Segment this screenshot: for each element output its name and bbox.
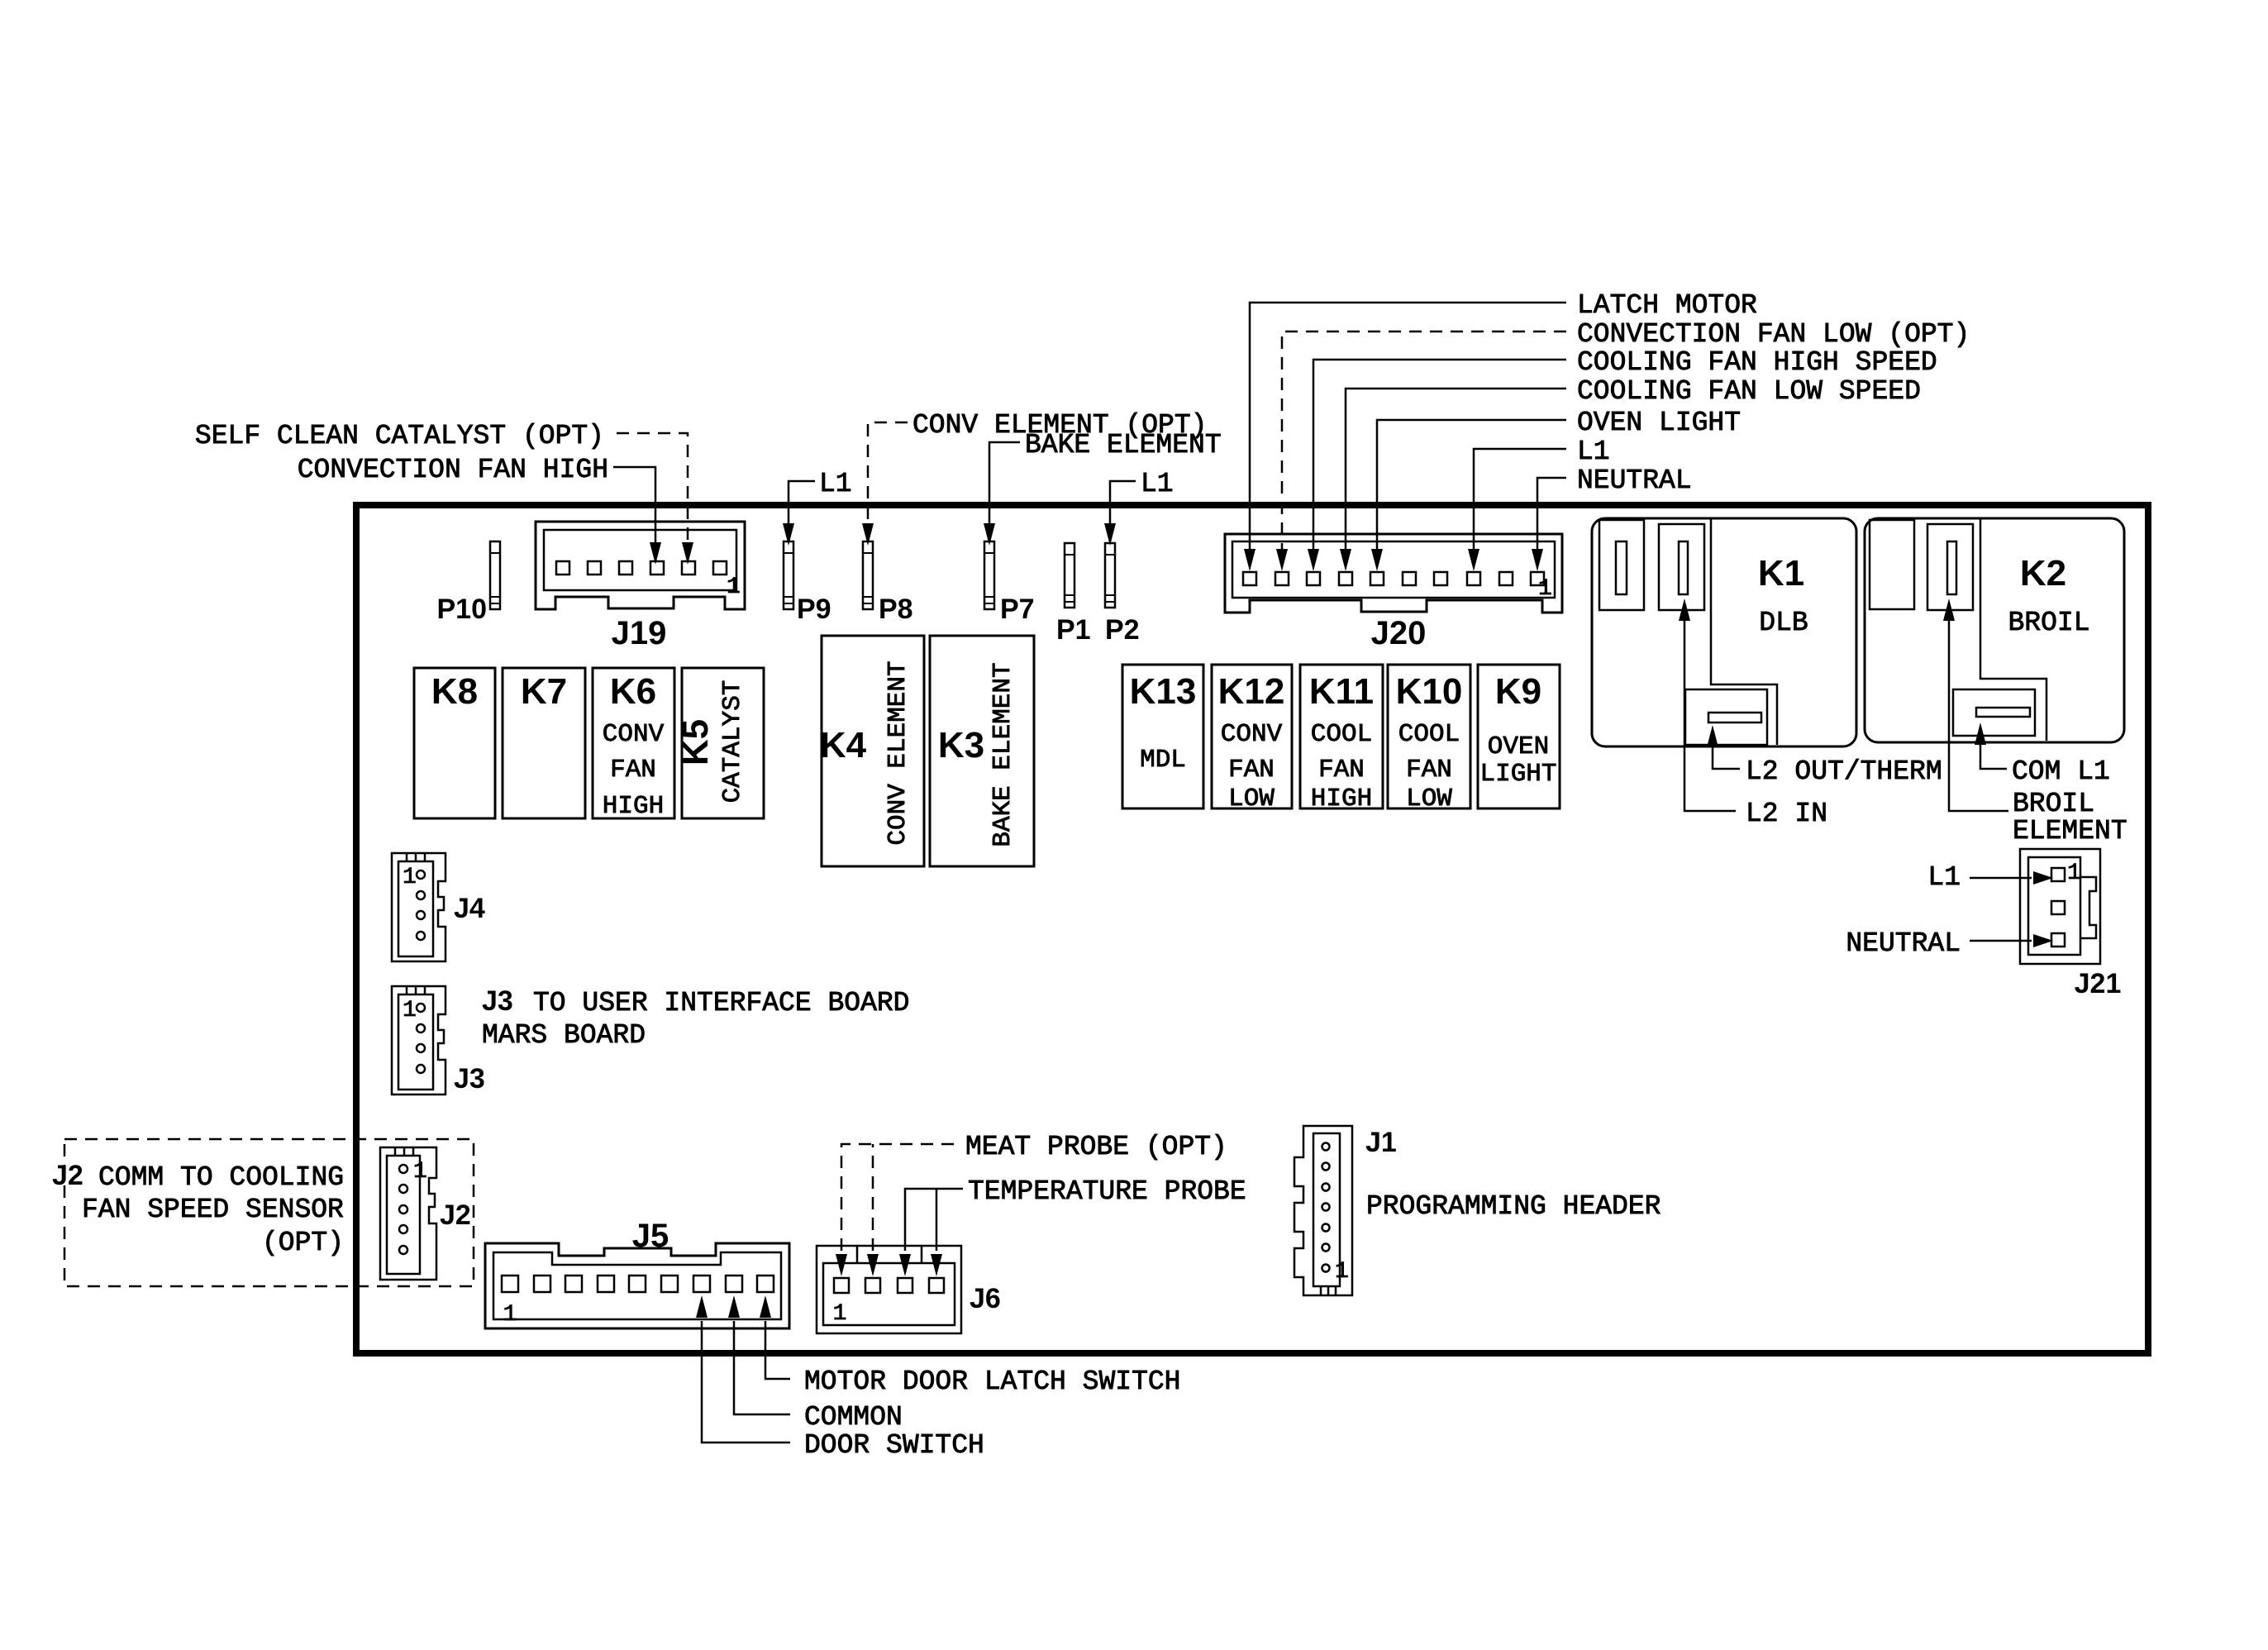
J2 pin 2 [399,1185,407,1193]
svg-text:P1: P1 [1056,614,1091,646]
svg-text:COOLING FAN HIGH SPEED: COOLING FAN HIGH SPEED [1577,347,1937,378]
relay K12 CONV FAN LOW [1212,665,1292,813]
connector J20 [1225,534,1562,613]
J1 pin 7 [1322,1143,1330,1151]
svg-text:K11: K11 [1309,671,1374,712]
svg-text:P10: P10 [437,594,488,625]
J20 pin 4 [1434,572,1447,585]
svg-text:1: 1 [2067,861,2081,886]
svg-text:L1: L1 [1577,436,1610,467]
wire motor door latch switch from J5 pin 9 [765,1321,790,1379]
relay K5 CATALYST [675,668,764,818]
wire leader BROIL ELEMENT [1949,615,2008,811]
svg-text:MDL: MDL [1140,746,1186,775]
svg-text:CONV ELEMENT: CONV ELEMENT [884,660,912,845]
svg-text:COOLING FAN LOW SPEED: COOLING FAN LOW SPEED [1577,376,1921,407]
J1 pin 1 [1322,1265,1330,1272]
relay K8 [414,668,495,818]
svg-text:BAKE ELEMENT: BAKE ELEMENT [1025,430,1222,460]
J1 pin 2 [1322,1244,1330,1252]
svg-text:K13: K13 [1130,671,1197,712]
J2 pin 5 [399,1246,407,1254]
K1 terminal housing B [1659,524,1704,610]
J19 pin 4 [619,561,632,575]
svg-text:K8: K8 [431,671,478,712]
relay K10 COOL FAN LOW [1388,665,1470,813]
svg-text:MOTOR DOOR LATCH SWITCH: MOTOR DOOR LATCH SWITCH [804,1366,1180,1397]
connector J6 [817,1246,961,1333]
arrowhead at J20 pin 10 [1532,549,1543,571]
svg-text:P8: P8 [879,594,913,625]
svg-text:COM L1: COM L1 [2012,756,2110,787]
J5 pin 1 [502,1276,518,1292]
K1 terminal housing A [1599,520,1644,610]
K2 terminal housing A [1870,520,1914,609]
svg-text:FAN: FAN [1228,756,1275,784]
wire leader oven light to J20 pin 5 [1377,420,1566,551]
K1 L2 terminal cutout [1685,689,1767,745]
svg-text:ELEMENT: ELEMENT [2013,816,2127,846]
arrowhead at P2 [1104,523,1116,546]
svg-text:DOOR SWITCH: DOOR SWITCH [804,1430,984,1461]
wire dashed leader convection fan low to J20 pin 2 [1282,331,1566,551]
relay K7 [503,668,585,818]
connector J21 [2020,849,2100,964]
J20 pin 3 [1467,572,1480,585]
relay K2 BROIL body [1865,518,2124,742]
svg-text:DLB: DLB [1759,608,1808,638]
svg-text:BROIL: BROIL [2008,608,2089,638]
relay K4 CONV ELEMENT [820,636,924,866]
svg-text:FAN: FAN [610,756,656,784]
K2 COM terminal cutout [1953,689,2035,736]
connector P2 [1105,543,1115,608]
J5 pin 8 [726,1276,742,1292]
svg-text:J1: J1 [1365,1127,1397,1158]
svg-text:FAN SPEED SENSOR: FAN SPEED SENSOR [82,1195,344,1225]
arrowhead at J19 pin 5 [682,542,693,565]
svg-text:TO USER INTERFACE BOARD: TO USER INTERFACE BOARD [533,988,909,1018]
svg-text:K2: K2 [2020,553,2066,594]
J3 pin 2 [417,1024,425,1032]
J5 pin 6 [661,1276,678,1292]
relay K9 OVEN LIGHT [1478,665,1560,808]
connector J19 [536,522,745,609]
connector P7 [984,541,994,609]
J4 pin 1 [417,870,425,879]
svg-text:L1: L1 [1141,469,1174,499]
svg-text:1: 1 [1538,576,1552,602]
J20 pin 9 [1275,572,1289,585]
wire temperature probe to J6 pin 3 [905,1189,963,1251]
svg-text:L2 OUT/THERM: L2 OUT/THERM [1746,756,1942,787]
J20 pin 7 [1339,572,1352,585]
arrowhead at J20 pin 2 [1276,549,1288,571]
arrowhead at J20 pin 8 [1468,549,1479,571]
wire leader L2 OUT/THERM [1713,738,1740,769]
svg-text:LOW: LOW [1228,784,1275,813]
connector P9 [784,541,793,609]
svg-text:COOL: COOL [1398,720,1460,749]
svg-text:L2 IN: L2 IN [1746,799,1827,829]
arrowhead at J20 pin 5 [1371,549,1383,571]
arrowhead at J6 pin 1 [836,1254,847,1276]
J19 pin 6 [556,561,569,575]
svg-text:OVEN LIGHT: OVEN LIGHT [1577,408,1741,438]
svg-text:J2: J2 [52,1160,83,1191]
svg-text:PROGRAMMING HEADER: PROGRAMMING HEADER [1366,1191,1660,1222]
wire leader L1 to P2 [1110,481,1136,527]
arrowhead at J6 pin 2 [867,1254,879,1276]
relay K6 CONV FAN HIGH [593,668,674,821]
J2 pin 4 [399,1225,407,1233]
J5 pin 5 [629,1276,646,1292]
J20 pin 8 [1307,572,1320,585]
J5 pin 7 [693,1276,710,1292]
J2 dashed option box [64,1139,474,1286]
svg-text:CONVECTION FAN HIGH: CONVECTION FAN HIGH [298,455,608,485]
svg-text:COMM TO COOLING: COMM TO COOLING [98,1162,344,1193]
svg-text:J21: J21 [2075,968,2122,999]
connector J3 [392,986,445,1094]
arrowhead COM L1 [1975,722,1986,745]
svg-text:P7: P7 [1000,594,1035,625]
arrowhead L2 IN [1679,598,1690,621]
J5 pin 9 [757,1276,774,1292]
svg-text:J5: J5 [632,1218,669,1254]
wire dashed meat probe to J6 pin 2 [872,1144,874,1251]
arrowhead at J5 pin 8 [728,1295,740,1318]
K2 terminal housing B [1927,524,1973,610]
svg-text:K9: K9 [1495,671,1541,712]
J19 pin 1 [713,561,727,575]
svg-text:COMMON: COMMON [804,1402,903,1433]
svg-text:P9: P9 [797,594,831,625]
arrowhead at P9 [783,523,794,546]
wire leader cooling fan low to J20 pin 4 [1346,389,1566,551]
J1 pin 5 [1322,1184,1330,1191]
K2 COM terminal slot [1976,708,2030,717]
svg-text:1: 1 [1335,1259,1349,1285]
J21 pin 1 [2051,868,2065,881]
J2 pin 1 [399,1165,407,1173]
J19 pin 2 [682,561,695,575]
wire leader L2 IN [1684,615,1736,811]
svg-text:OVEN: OVEN [1488,732,1549,761]
arrowhead at J6 pin 3 [899,1254,911,1276]
relay K1 DLB body [1592,518,1856,746]
svg-text:J3: J3 [482,985,513,1017]
connector P1 [1065,543,1074,608]
J3 pin 1 [417,1004,425,1012]
J6 pin 2 [865,1278,880,1293]
J20 pin 10 [1243,572,1256,585]
board outline [356,505,2148,1353]
J5 pin 3 [565,1276,582,1292]
wire dashed leader conv element to P8 [868,422,908,527]
connector J1 [1294,1126,1352,1295]
svg-text:SELF CLEAN CATALYST (OPT): SELF CLEAN CATALYST (OPT) [195,421,604,451]
svg-text:1: 1 [833,1301,847,1327]
J4 pin 3 [417,911,425,919]
svg-text:CONVECTION FAN LOW (OPT): CONVECTION FAN LOW (OPT) [1577,319,1970,350]
arrowhead at J5 pin 9 [760,1295,771,1318]
wire dashed leader self-clean catalyst to J19 pin 5 [617,433,688,546]
arrowhead at P7 [984,523,995,546]
svg-text:1: 1 [727,575,741,600]
wire common from J5 pin 8 [734,1321,790,1414]
wire leader neutral to J20 pin 10 [1537,478,1566,551]
arrowhead BROIL ELEMENT [1943,598,1955,621]
J2 pin 3 [399,1205,407,1214]
svg-text:1: 1 [413,1159,427,1185]
svg-text:LATCH MOTOR: LATCH MOTOR [1577,290,1757,321]
J1 pin 3 [1322,1224,1330,1232]
J21 pin 3 [2051,933,2065,947]
J19 pin 5 [588,561,601,575]
svg-text:1: 1 [503,1302,517,1328]
svg-text:CONV: CONV [603,720,665,749]
svg-text:HIGH: HIGH [1311,784,1372,813]
svg-text:HIGH: HIGH [603,792,664,821]
relay K11 COOL FAN HIGH [1300,665,1383,813]
svg-text:K5: K5 [675,719,716,765]
J1 pin 6 [1322,1163,1330,1171]
K1 L2 terminal slot [1708,713,1761,722]
J6 pin 1 [834,1278,849,1293]
svg-text:LIGHT: LIGHT [1479,760,1556,789]
svg-text:MARS BOARD: MARS BOARD [482,1020,646,1051]
svg-text:NEUTRAL: NEUTRAL [1577,465,1692,496]
arrowhead L2 OUT/THERM [1707,725,1718,747]
arrowhead at J19 pin 4 [650,542,661,565]
arrowhead at J5 pin 7 [696,1295,708,1318]
wire leader L1 to J20 pin 8 [1474,449,1566,551]
wire temperature probe to J6 pin 4 [936,1189,938,1251]
arrowhead at P8 [862,523,874,546]
svg-text:MEAT PROBE (OPT): MEAT PROBE (OPT) [965,1132,1227,1162]
wire dashed meat probe to J6 pin 1 [841,1144,959,1251]
J3 pin 3 [417,1044,425,1052]
svg-text:FAN: FAN [1406,756,1452,784]
J5 pin 4 [598,1276,614,1292]
J20 pin 6 [1370,572,1384,585]
svg-text:J2: J2 [440,1199,471,1231]
svg-text:L1: L1 [819,469,852,499]
wire door switch from J5 pin 7 [702,1321,790,1443]
arrowhead at J6 pin 4 [931,1254,942,1276]
svg-text:J6: J6 [970,1283,1001,1314]
svg-text:J4: J4 [454,893,485,924]
K1 chamber divider [1711,519,1777,745]
wire leader convection fan high to J19 pin 4 [613,467,655,546]
connector P8 [863,541,873,609]
wire arrow L1 to J21 pin 1 [1970,877,2032,880]
svg-text:P2: P2 [1105,614,1140,646]
svg-text:BAKE ELEMENT: BAKE ELEMENT [989,662,1017,846]
J4 pin 2 [417,891,425,899]
wire leader COM L1 [1980,737,2007,769]
wire leader latch motor to J20 pin 1 [1250,303,1566,551]
svg-text:NEUTRAL: NEUTRAL [1846,928,1961,959]
svg-text:(OPT): (OPT) [262,1228,344,1258]
svg-text:CONV: CONV [1221,720,1283,749]
svg-text:COOL: COOL [1311,720,1372,749]
svg-text:CATALYST: CATALYST [718,680,747,804]
arrowhead at J20 pin 1 [1244,549,1255,571]
relay K13 MDL [1122,665,1203,808]
J1 pin 4 [1322,1204,1330,1211]
svg-text:K4: K4 [820,725,867,765]
relay K3 BAKE ELEMENT [930,636,1034,866]
svg-text:TEMPERATURE PROBE: TEMPERATURE PROBE [968,1176,1246,1207]
wire leader cooling fan high to J20 pin 3 [1313,360,1566,551]
J20 pin 1 [1531,572,1544,585]
arrowhead at J20 pin 3 [1308,549,1319,571]
wire leader L1 to P9 [789,481,815,527]
svg-text:1: 1 [403,865,417,890]
svg-text:K7: K7 [521,671,567,712]
svg-text:1: 1 [403,998,417,1023]
svg-text:K10: K10 [1396,671,1463,712]
svg-text:K1: K1 [1758,553,1804,594]
svg-text:LOW: LOW [1406,784,1452,813]
svg-text:J20: J20 [1371,615,1427,651]
J20 pin 2 [1499,572,1513,585]
connector J4 [392,853,445,961]
connector J5 [485,1243,789,1328]
wire leader bake element to P7 [989,442,1020,527]
connector P10 [490,541,500,609]
J21 pin 2 [2051,901,2065,914]
J4 pin 4 [417,932,425,940]
svg-text:K12: K12 [1218,671,1285,712]
svg-text:L1: L1 [1927,862,1961,893]
K1 terminal slot B [1679,541,1688,594]
J6 pin 4 [929,1278,944,1293]
wire arrow NEUTRAL to J21 pin 3 [1970,940,2032,942]
svg-text:J3: J3 [454,1063,485,1094]
arrowhead at J20 pin 4 [1340,549,1351,571]
J20 pin 5 [1403,572,1416,585]
svg-text:K3: K3 [938,725,984,765]
J6 pin 3 [898,1278,912,1293]
J19 pin 3 [650,561,664,575]
K2 terminal slot B [1947,541,1956,594]
svg-text:K6: K6 [610,671,656,712]
J5 pin 2 [534,1276,550,1292]
connector J2 [380,1147,436,1280]
K2 chamber divider [1980,519,2046,741]
svg-text:J19: J19 [612,615,667,651]
J3 pin 4 [417,1065,425,1073]
K1 terminal slot A [1616,541,1627,594]
svg-text:BROIL: BROIL [2013,789,2094,819]
svg-text:FAN: FAN [1318,756,1365,784]
